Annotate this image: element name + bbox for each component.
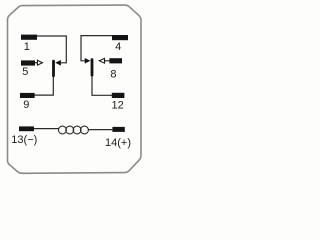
coil L1 loop 4	[81, 126, 89, 134]
pin 9 terminal	[20, 93, 35, 98]
pin 14 terminal	[112, 127, 124, 132]
svg-text:5: 5	[22, 66, 28, 78]
wire pin1 to NC contact	[37, 36, 66, 63]
svg-text:8: 8	[110, 69, 116, 81]
svg-text:12: 12	[111, 99, 123, 111]
pin 12 terminal	[112, 93, 125, 98]
pin 8 terminal	[109, 58, 122, 63]
svg-text:4: 4	[115, 41, 121, 53]
wire coil to pin14	[88, 129, 112, 131]
coil L1 loop 1	[58, 126, 66, 134]
NC contact arrow left pole (filled, points left)	[55, 60, 61, 66]
svg-text:1: 1	[24, 41, 30, 53]
pin 1 terminal	[21, 35, 37, 40]
coil L1 loop 3	[73, 126, 81, 134]
wire pin5 to arrow	[35, 62, 37, 64]
wire pin13 to coil	[34, 128, 59, 130]
blade to pin12 wire	[92, 76, 112, 95]
pin 4 terminal	[112, 35, 128, 40]
pin 5 terminal	[21, 60, 35, 65]
movable contact blade left pole	[52, 60, 55, 77]
wire pin4 to NC contact right pole	[81, 36, 112, 61]
svg-text:13(−): 13(−)	[11, 134, 37, 146]
svg-text:14(+): 14(+)	[105, 137, 131, 149]
blade to pin9 wire	[35, 77, 54, 96]
coil L1 loop 2	[66, 126, 74, 134]
open actuating arrow left pole (points right)	[37, 60, 42, 65]
relay case outline	[8, 5, 142, 173]
NC contact arrow right pole (filled, points right)	[85, 58, 91, 64]
wire pin8 to arrow	[104, 60, 109, 62]
movable contact blade right pole	[91, 58, 94, 76]
svg-text:9: 9	[23, 99, 29, 111]
pin 13 terminal	[19, 126, 34, 131]
open actuating arrow right pole (points left)	[99, 58, 104, 63]
